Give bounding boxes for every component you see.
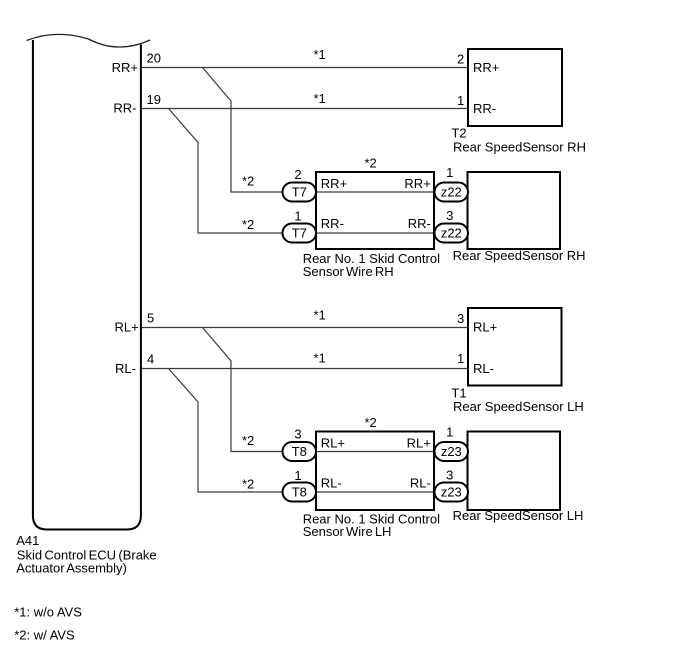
svg-text:T8: T8	[292, 485, 307, 500]
note *2 on wire to T8 pin 3	[242, 433, 254, 448]
svg-text:z22: z22	[441, 226, 462, 241]
svg-text:*1: *1	[314, 47, 326, 62]
pin number 3 at z23	[446, 468, 453, 483]
svg-text:1: 1	[457, 351, 464, 366]
T2 reference label	[451, 126, 466, 141]
connector oval z23 pin 3	[435, 483, 469, 502]
svg-text:T2: T2	[451, 126, 466, 141]
svg-text:RR+: RR+	[112, 60, 138, 75]
sensor wire RH terminal RR+ left	[321, 176, 347, 191]
svg-text:1: 1	[446, 165, 453, 180]
note *1 on wire 19	[314, 91, 326, 106]
svg-text:Rear SpeedSensor RH: Rear SpeedSensor RH	[453, 248, 586, 263]
svg-text:*1: *1	[314, 91, 326, 106]
footnote 2	[14, 627, 75, 642]
svg-text:RR-: RR-	[113, 101, 136, 116]
ECU caption line 2	[16, 560, 127, 575]
T1 caption	[453, 399, 584, 414]
svg-text:A41: A41	[16, 533, 39, 548]
note *1 on wire 5	[314, 308, 326, 323]
caption sensor wire LH line 2	[303, 524, 392, 539]
ECU pin RR+ label	[112, 60, 138, 75]
connector oval T8 pin 3	[283, 442, 317, 461]
svg-text:RL-: RL-	[410, 475, 431, 490]
caption sensor wire RH line 2	[303, 264, 394, 279]
pin number 1 at z22	[446, 165, 453, 180]
svg-text:RR-: RR-	[321, 216, 344, 231]
wire RR+ AVS branch to T7 pin 2 and through sensor wire box to z22 pin 1	[203, 68, 468, 193]
ECU pin 5 number	[147, 311, 154, 326]
connector box Rear Speed Sensor RH (middle row)	[468, 172, 561, 249]
svg-text:T7: T7	[292, 226, 307, 241]
wire RL+ AVS branch to T8 pin 3 and through sensor wire box to z23 pin 1	[203, 328, 468, 452]
sensor wire RH terminal RR- right	[408, 216, 431, 231]
svg-text:RR-: RR-	[473, 101, 496, 116]
caption sensor wire LH line 1	[303, 511, 440, 526]
caption sensor wire RH line 1	[303, 251, 440, 266]
T2 caption	[453, 140, 586, 155]
svg-text:5: 5	[147, 311, 154, 326]
svg-text:*2: *2	[242, 433, 254, 448]
T2 pin 2 number	[457, 52, 464, 67]
note *2 above sensor wire LH box	[364, 415, 376, 430]
ECU pin RL- label	[115, 361, 136, 376]
svg-text:RR+: RR+	[321, 176, 347, 191]
svg-text:*1: *1	[314, 308, 326, 323]
svg-text:20: 20	[147, 51, 161, 66]
svg-text:Sensor Wire RH: Sensor Wire RH	[303, 264, 394, 279]
footnote 1	[14, 604, 82, 619]
ECU caption line 1	[17, 548, 157, 563]
connector box Rear No.1 Skid Control Sensor Wire RH	[316, 172, 434, 249]
svg-text:4: 4	[147, 351, 154, 366]
svg-text:Actuator Assembly): Actuator Assembly)	[16, 560, 127, 575]
ECU pin 4 number	[147, 351, 154, 366]
sensor wire LH terminal RL+ left	[321, 435, 345, 450]
pin number 3 at z22	[446, 208, 453, 223]
sensor wire LH terminal RL+ right	[407, 435, 431, 450]
T2 terminal RR- label	[473, 101, 496, 116]
wire RL+ from ECU pin 5 to T1 pin 3	[142, 327, 468, 329]
svg-text:*2: w/ AVS: *2: w/ AVS	[14, 627, 75, 642]
wire RR- from ECU pin 19 to T2 pin 1	[142, 108, 468, 110]
wire RL- AVS branch to T8 pin 1 and through sensor wire box to z23 pin 3	[169, 369, 468, 493]
connector oval T8 pin 1	[283, 483, 317, 502]
svg-text:*2: *2	[364, 415, 376, 430]
sensor wire LH terminal RL- left	[321, 475, 342, 490]
ECU pin RL+ label	[114, 320, 138, 335]
svg-text:*2: *2	[242, 476, 254, 491]
svg-text:z23: z23	[441, 444, 462, 459]
svg-text:RL+: RL+	[114, 320, 138, 335]
svg-text:RL-: RL-	[115, 361, 136, 376]
ECU A41 box outline	[33, 40, 141, 530]
svg-text:RR+: RR+	[404, 176, 430, 191]
connector box Rear No.1 Skid Control Sensor Wire LH	[316, 432, 434, 511]
sensor wire RH terminal RR+ right	[404, 176, 430, 191]
note *2 above sensor wire RH box	[364, 155, 376, 170]
note *1 on wire 20	[314, 47, 326, 62]
svg-text:*1: w/o AVS: *1: w/o AVS	[14, 604, 82, 619]
ECU pin 20 number	[147, 51, 161, 66]
sensor wire RH terminal RR- left	[321, 216, 344, 231]
svg-text:Rear SpeedSensor RH: Rear SpeedSensor RH	[453, 140, 586, 155]
T1 terminal RL- label	[473, 361, 494, 376]
pin number 1 at T8	[294, 468, 301, 483]
svg-text:RR+: RR+	[473, 60, 499, 75]
svg-text:2: 2	[457, 52, 464, 67]
svg-text:1: 1	[294, 468, 301, 483]
pin number 1 at T7	[294, 209, 301, 224]
wire RR- AVS branch to T7 pin 1 and through sensor wire box to z22 pin 3	[169, 109, 468, 234]
svg-text:*2: *2	[364, 155, 376, 170]
T1 pin 3 number	[457, 311, 464, 326]
wire RR+ from ECU pin 20 to T2 pin 2	[142, 67, 468, 69]
note *2 on wire to T8 pin 1	[242, 476, 254, 491]
sensor wire LH terminal RL- right	[410, 475, 431, 490]
svg-text:3: 3	[457, 311, 464, 326]
wire RL- from ECU pin 4 to T1 pin 1	[142, 368, 468, 370]
svg-text:3: 3	[294, 427, 301, 442]
connector T2 box (Rear Speed Sensor RH)	[468, 49, 562, 126]
connector oval z23 pin 1	[435, 442, 469, 461]
note *2 on wire to T7 pin 1	[242, 217, 254, 232]
T2 pin 1 number	[457, 93, 464, 108]
svg-text:T7: T7	[292, 185, 307, 200]
svg-text:1: 1	[457, 93, 464, 108]
svg-text:Rear SpeedSensor LH: Rear SpeedSensor LH	[453, 399, 584, 414]
ECU reference label A41	[16, 533, 39, 548]
connector box Rear Speed Sensor LH (middle row)	[468, 432, 561, 511]
svg-text:RR-: RR-	[408, 216, 431, 231]
T1 reference label	[451, 385, 466, 400]
connector oval z22 pin 1	[435, 183, 469, 202]
svg-text:RL-: RL-	[321, 475, 342, 490]
T1 terminal RL+ label	[473, 320, 497, 335]
svg-text:2: 2	[294, 167, 301, 182]
pin number 1 at z23	[446, 425, 453, 440]
svg-text:*2: *2	[242, 173, 254, 188]
svg-text:*2: *2	[242, 217, 254, 232]
ECU pin 19 number	[147, 92, 161, 107]
ECU torn top edge	[27, 34, 151, 47]
ECU pin RR- label	[113, 101, 136, 116]
svg-text:T8: T8	[292, 444, 307, 459]
pin number 2 at T7	[294, 167, 301, 182]
note *2 on wire to T7 pin 2	[242, 173, 254, 188]
svg-text:z23: z23	[441, 485, 462, 500]
svg-text:z22: z22	[441, 185, 462, 200]
connector oval z22 pin 3	[435, 224, 469, 243]
svg-text:RL+: RL+	[407, 435, 431, 450]
note *1 on wire 4	[314, 351, 326, 366]
pin number 3 at T8	[294, 427, 301, 442]
svg-text:1: 1	[294, 209, 301, 224]
caption rear speed sensor RH (middle row)	[453, 248, 586, 263]
svg-text:RL-: RL-	[473, 361, 494, 376]
svg-text:3: 3	[446, 208, 453, 223]
svg-text:19: 19	[147, 92, 161, 107]
svg-text:Rear SpeedSensor LH: Rear SpeedSensor LH	[453, 508, 584, 523]
T2 terminal RR+ label	[473, 60, 499, 75]
T1 pin 1 number	[457, 351, 464, 366]
connector oval T7 pin 2	[283, 183, 317, 202]
svg-text:RL+: RL+	[473, 320, 497, 335]
svg-text:1: 1	[446, 425, 453, 440]
svg-text:*1: *1	[314, 351, 326, 366]
caption rear speed sensor LH (middle row)	[453, 508, 584, 523]
svg-text:RL+: RL+	[321, 435, 345, 450]
svg-text:3: 3	[446, 468, 453, 483]
connector T1 box (Rear Speed Sensor LH)	[468, 308, 562, 386]
connector oval T7 pin 1	[283, 224, 317, 243]
svg-text:Sensor Wire LH: Sensor Wire LH	[303, 524, 392, 539]
